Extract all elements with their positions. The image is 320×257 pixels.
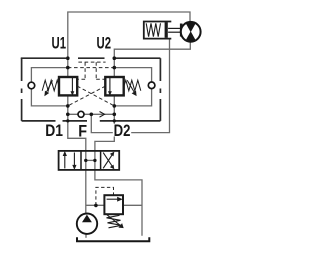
pilot cross line left valve [77, 86, 114, 106]
right box internal flow arrow [109, 78, 111, 94]
wire left valve loop [31, 68, 67, 106]
cylinder spring [146, 23, 160, 36]
motor bottom wedge [186, 31, 195, 41]
wire check/shuttle line [68, 113, 115, 115]
svg-text:U1: U1 [52, 35, 67, 53]
relief valve box [104, 195, 123, 214]
left box internal flow arrow [71, 78, 73, 94]
manifold boundary left edge [21, 58, 23, 121]
left valve spring [42, 80, 59, 91]
wire T tank return line [95, 170, 142, 236]
pump flow triangle [82, 215, 92, 223]
tank [77, 237, 149, 241]
relief adjust arrow [106, 214, 123, 228]
pilot line of relief valve [96, 187, 114, 205]
pilot bridge between valve boxes [77, 62, 105, 79]
gauge port circle right [148, 82, 155, 89]
svg-text:D1: D1 [45, 122, 63, 140]
pump [77, 214, 97, 234]
pilot cross line right valve [68, 86, 106, 106]
manifold boundary top edge [22, 57, 161, 60]
manifold boundary bottom edge [22, 120, 161, 122]
wire U2 line to motor bottom [114, 42, 190, 77]
wire D1 from left valve to DCV port A [68, 95, 86, 151]
DCV cell dividers [81, 151, 101, 170]
relief spring [107, 215, 122, 228]
relief internal arrow [107, 198, 122, 201]
gauge port circle left [28, 82, 35, 89]
counterbalance valve box left [59, 77, 77, 95]
wire F brake line to cylinder [91, 39, 169, 133]
wire D2 from right valve to DCV port B [95, 95, 114, 151]
svg-text:U2: U2 [97, 35, 112, 53]
manifold boundary right edge [159, 58, 161, 121]
counterbalance valve box right [105, 77, 123, 95]
wire U1 line to motor top [68, 12, 190, 77]
svg-text:F: F [78, 123, 87, 141]
pilot line spring-chamber dashed row [68, 67, 115, 69]
right valve adjust arrow [127, 80, 136, 95]
cylinder piston [165, 22, 168, 38]
wire DCV through lines and bridge [86, 151, 95, 170]
brake cylinder body [144, 22, 172, 39]
DCV right cell crossed arrows [103, 153, 113, 169]
hydraulic motor [181, 22, 201, 42]
wire P pump line [85, 170, 87, 238]
cylinder rod [168, 28, 180, 32]
junction dots [66, 56, 116, 207]
right valve spring [124, 80, 141, 91]
wire relief flow line [86, 204, 142, 206]
DCV left cell arrows [64, 152, 76, 168]
wire right valve loop [114, 68, 151, 106]
rod flange plate [180, 24, 183, 37]
check line arrowhead [100, 112, 105, 118]
svg-text:D2: D2 [114, 122, 131, 140]
label backgrounds [113, 124, 131, 137]
left valve adjust arrow [45, 80, 53, 95]
motor top wedge [186, 23, 195, 33]
directional control valve body [59, 151, 120, 170]
check ball circle [78, 111, 84, 117]
